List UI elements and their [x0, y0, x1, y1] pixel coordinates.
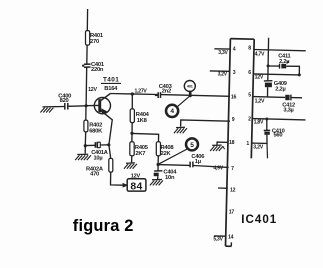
pin number 3: [233, 70, 236, 76]
wave point 4: [166, 105, 178, 117]
svg-text:3,3µ: 3,3µ: [283, 108, 293, 114]
svg-text:18: 18: [229, 140, 235, 146]
node R404 bottom junction: [130, 132, 133, 135]
IC U401 body: [226, 39, 255, 247]
svg-text:10n: 10n: [165, 175, 175, 181]
node base junction: [85, 104, 88, 107]
svg-text:5: 5: [190, 142, 194, 149]
resistor R405: [130, 142, 149, 157]
label 1,2V: [255, 98, 265, 104]
transistor T401 emitter arrow: [101, 108, 107, 115]
wire IC pin 18 stub: [217, 142, 228, 145]
wire base junction to transistor base: [86, 104, 98, 106]
capacitor C411: [278, 54, 290, 69]
pin number 6: [248, 70, 251, 76]
node C411 branch junction: [267, 64, 270, 67]
node emitter bottom junction: [107, 143, 110, 146]
svg-text:12V: 12V: [255, 75, 264, 81]
wire C410 top lead: [266, 119, 268, 130]
wire main left rail top segment: [86, 9, 88, 31]
svg-text:1,8V: 1,8V: [254, 120, 264, 126]
svg-text:T401: T401: [103, 77, 119, 84]
svg-text:3,3V: 3,3V: [218, 50, 228, 56]
resistor R402: [84, 120, 103, 134]
capacitor C406: [190, 154, 205, 167]
svg-text:12V: 12V: [88, 87, 97, 93]
node C410 junction: [265, 118, 268, 121]
wire vertical supply branch: [267, 38, 270, 81]
wave point 5: [186, 138, 198, 150]
label 3,3V: [218, 50, 228, 56]
svg-text:B164: B164: [104, 86, 118, 92]
wire junction to C404: [157, 165, 159, 171]
wire C412 right lead: [291, 97, 302, 99]
label 5,3V: [213, 236, 223, 242]
svg-text:1K8: 1K8: [137, 118, 148, 124]
pin number 8: [248, 45, 251, 51]
wire IC pin 9 to ground: [181, 120, 230, 127]
label 1,27V: [135, 89, 148, 95]
ground G2: [124, 163, 137, 169]
wire C403 to IC pin 16: [161, 95, 230, 97]
ground G0: [40, 107, 54, 113]
connector box B4: [127, 179, 146, 193]
wire IC pin 12 stub: [218, 187, 228, 189]
pin number 2: [248, 116, 251, 122]
wire junction to R408 top: [132, 133, 159, 141]
capacitor C404: [154, 170, 178, 181]
capacitor C401: [82, 62, 105, 73]
ground G1: [75, 154, 91, 160]
label 3,2V pin3: [218, 72, 228, 78]
transistor T401 collector line: [101, 94, 111, 101]
label 4,9V: [213, 165, 223, 171]
svg-text:1: 1: [246, 141, 249, 147]
svg-text:5: 5: [248, 93, 251, 99]
pin number 7: [231, 166, 234, 172]
svg-text:820: 820: [60, 98, 69, 104]
pin number 16: [231, 94, 237, 100]
svg-text:4: 4: [170, 108, 174, 115]
wire junction to R405: [131, 133, 133, 142]
svg-text:4: 4: [233, 47, 236, 53]
node emitter-network junction: [84, 144, 87, 147]
wire C410 bottom to IC pin 1: [252, 135, 268, 144]
label 3,2V pin1: [253, 144, 263, 150]
wire emitter vertical: [109, 120, 112, 145]
wire IC pin 4 stub: [214, 48, 230, 50]
label B164: [104, 86, 118, 92]
wire stub below pin1 corner: [266, 143, 269, 158]
transistor T401 circle: [94, 98, 110, 114]
capacitor C400: [58, 94, 71, 110]
label 12V at base: [88, 87, 97, 93]
node R408 bottom junction: [157, 163, 160, 166]
pin number 18: [229, 140, 235, 146]
wire rail R401 to C401: [86, 45, 88, 64]
pin number 12: [230, 188, 236, 194]
wire junction to R404: [131, 94, 133, 109]
svg-text:IC401: IC401: [241, 213, 277, 226]
arrow into B4: [123, 183, 129, 188]
pin number 5: [248, 93, 251, 99]
svg-text:680K: 680K: [89, 128, 103, 134]
svg-text:7: 7: [231, 166, 234, 172]
svg-text:270: 270: [90, 39, 99, 45]
pin number 4: [233, 47, 236, 53]
transistor T401 emitter line: [101, 111, 113, 121]
wire junction to C401A: [85, 144, 95, 146]
capacitor C410: [264, 128, 285, 138]
svg-text:R405: R405: [135, 145, 149, 151]
label T401: [103, 77, 119, 84]
svg-text:1µ: 1µ: [195, 159, 201, 165]
wire rail C401 to base junction: [85, 67, 88, 106]
svg-text:2: 2: [248, 116, 251, 122]
svg-text:figura 2: figura 2: [73, 217, 134, 235]
wire IC pin 6 line: [254, 74, 300, 75]
svg-text:220n: 220n: [91, 67, 104, 73]
wire R404 to lower junction: [131, 123, 133, 134]
node test point junction: [189, 94, 192, 97]
svg-text:8: 8: [248, 45, 251, 51]
svg-text:4,7V: 4,7V: [255, 51, 265, 57]
wire C406 to IC pin 7: [193, 166, 228, 168]
resistor R408: [156, 142, 174, 157]
wire C401A to emitter junction: [101, 144, 109, 146]
svg-text:12: 12: [230, 188, 236, 194]
pin number 17: [229, 210, 235, 216]
capacitor C403: [155, 84, 173, 98]
label 1,8V: [254, 120, 264, 126]
wire C404 to ground: [157, 176, 159, 179]
label 12V above B4: [131, 174, 141, 180]
wire R405 to ground: [131, 156, 133, 163]
pin number 9: [232, 117, 235, 123]
svg-text:5,3V: 5,3V: [213, 236, 223, 242]
svg-text:2n2: 2n2: [162, 89, 171, 95]
svg-text:3,2V: 3,2V: [253, 144, 263, 150]
svg-text:3,2V: 3,2V: [218, 72, 228, 78]
svg-text:4,9V: 4,9V: [213, 165, 223, 171]
node C411 to pin6 junction: [298, 73, 301, 76]
svg-text:84: 84: [130, 181, 142, 192]
capacitor C409: [264, 81, 287, 93]
wire rail junction to R402: [85, 106, 87, 120]
svg-text:16: 16: [231, 94, 237, 100]
wire C409 to pin 5 line: [267, 87, 269, 97]
svg-text:17: 17: [229, 210, 235, 216]
wire C411 right lead to 12V rail: [286, 66, 299, 75]
label T401 underline: [101, 82, 121, 84]
pin number 1: [246, 141, 249, 147]
svg-text:10µ: 10µ: [94, 155, 103, 161]
wire IC pin 14 stub: [214, 235, 226, 237]
svg-text:2,2µ: 2,2µ: [275, 86, 285, 92]
pin number 14: [228, 234, 234, 240]
wire C411 left lead: [268, 65, 279, 67]
svg-text:R408: R408: [161, 145, 175, 151]
wire collector to C403: [110, 94, 158, 95]
svg-text:1,27V: 1,27V: [135, 89, 148, 95]
wire IC pin 8 line: [254, 50, 306, 51]
svg-text:6: 6: [248, 70, 251, 76]
node R404 top junction: [131, 92, 134, 95]
wire IC pin 2 line: [253, 119, 306, 120]
wire rail R402 to lower junction: [84, 132, 86, 146]
wire IC pin 3 stub: [210, 70, 230, 72]
label IC401: [241, 213, 277, 226]
wire ground to C400: [54, 106, 65, 108]
wire C400 to base junction: [69, 105, 87, 108]
label 12V pin6: [255, 75, 264, 81]
resistor R401: [86, 31, 104, 45]
wire emitter junction to R402A: [109, 145, 111, 159]
svg-text:470: 470: [90, 172, 99, 178]
svg-text:2,2µ: 2,2µ: [279, 59, 289, 65]
wire diagonal wave point 5 to junction: [158, 149, 187, 164]
label 4,7V: [255, 51, 265, 57]
svg-text:560: 560: [274, 133, 283, 139]
resistor R404: [130, 109, 149, 124]
wire diagonal to wave point 4: [178, 96, 190, 107]
ground G4: [174, 127, 187, 133]
ground G3: [150, 180, 163, 186]
wire R402A to B4 arrow: [111, 172, 123, 185]
wire R408 to junction: [157, 156, 159, 165]
svg-text:3: 3: [233, 70, 236, 76]
ground G5: [210, 145, 225, 151]
wire junction to ground G1: [84, 146, 86, 154]
test point circle 401: [184, 81, 195, 92]
transistor T401 base bar: [98, 99, 101, 112]
caption figura 2: [73, 217, 134, 235]
svg-text:14: 14: [228, 234, 234, 240]
svg-text:9: 9: [232, 117, 235, 123]
capacitor C401A: [91, 142, 108, 161]
wire junction to C406: [158, 164, 190, 167]
test point 401 stem: [189, 91, 192, 96]
svg-text:2K7: 2K7: [135, 151, 145, 157]
svg-text:401: 401: [187, 85, 193, 89]
resistor R402A: [86, 158, 113, 177]
svg-text:22K: 22K: [161, 151, 172, 157]
svg-text:1,2V: 1,2V: [255, 98, 265, 104]
capacitor C412: [282, 95, 295, 114]
wire IC pin 5 line: [253, 96, 285, 99]
